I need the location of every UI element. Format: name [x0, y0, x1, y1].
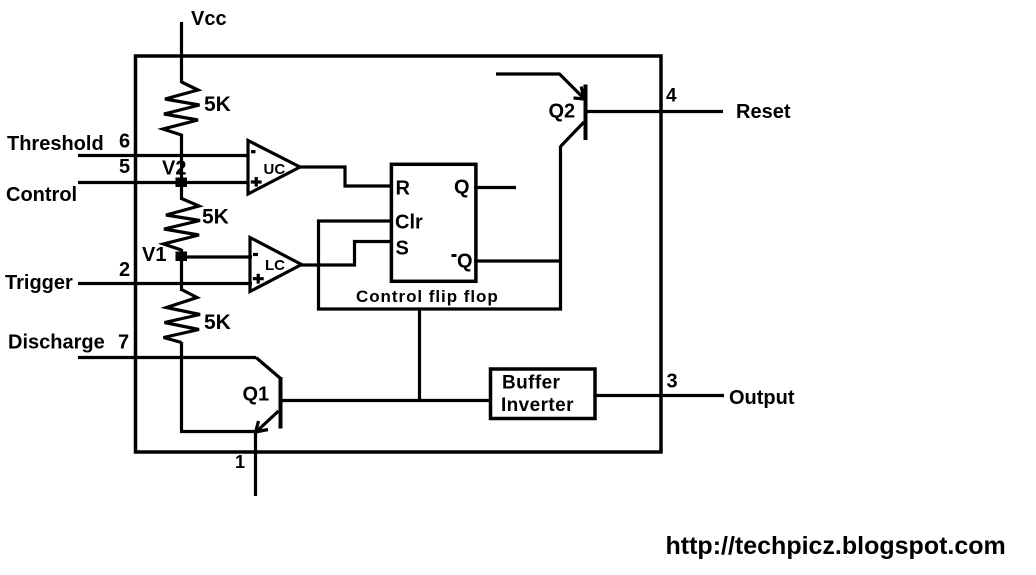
- wire Discharge pin 7 to Q1 collector: [78, 356, 256, 359]
- svg-text:Q1: Q1: [243, 384, 270, 406]
- resistor R3 5K: [164, 290, 201, 343]
- wire UC output to flip flop R input: [300, 167, 393, 186]
- transistor Q2 label: [549, 101, 576, 123]
- node V2 label: [162, 158, 186, 180]
- Vcc label: [191, 8, 227, 30]
- svg-text:Q2: Q2: [549, 101, 576, 123]
- Control label: [6, 184, 77, 206]
- resistor R2 5K: [164, 199, 201, 251]
- watermark URL caption: [666, 532, 1006, 560]
- wire Clr feedback: left, down, along bottom, up to Q2 emitter: [319, 146, 561, 309]
- pin 4 label: [666, 86, 677, 107]
- Buffer Inverter box U2: [491, 369, 596, 419]
- wire R1 bottom to R2 top: [180, 134, 183, 200]
- pin 6 label: [119, 131, 130, 153]
- svg-text:Clr: Clr: [395, 212, 423, 234]
- svg-text:2: 2: [119, 259, 130, 281]
- svg-text:Q: Q: [457, 251, 473, 273]
- svg-text:http://techpicz.blogspot.com: http://techpicz.blogspot.com: [666, 532, 1006, 560]
- svg-text:3: 3: [667, 371, 678, 393]
- Reset label: [736, 101, 791, 123]
- pin Clr label: [395, 212, 423, 234]
- svg-text:Inverter: Inverter: [501, 395, 574, 416]
- pin 3 label: [667, 371, 678, 393]
- Output label: [729, 387, 795, 409]
- svg-text:7: 7: [118, 332, 129, 354]
- Buffer Inverter caption: [501, 373, 574, 417]
- transistor Q2: [496, 74, 586, 147]
- wire -Q output to feedback line: [474, 259, 561, 262]
- Control flip flop caption: [356, 287, 499, 306]
- svg-text:4: 4: [666, 86, 677, 107]
- flip flop box U1: [391, 164, 476, 281]
- resistor R1 5K: [163, 82, 200, 135]
- svg-text:Control: Control: [6, 184, 77, 206]
- svg-text:V1: V1: [142, 244, 166, 266]
- pin R label: [396, 178, 411, 200]
- node V1 junction dot: [176, 252, 188, 262]
- wire junction drop to Q1 base rail: [418, 309, 421, 401]
- wire Q output stub: [474, 186, 516, 189]
- op-amp UC comparator: [248, 141, 300, 195]
- wire R2 bottom to R3 top: [180, 249, 183, 291]
- svg-text:Discharge: Discharge: [8, 332, 105, 354]
- Discharge label: [8, 332, 105, 354]
- Threshold label: [7, 133, 104, 155]
- wire Q1 base rail to Buffer Inverter: [281, 399, 490, 402]
- svg-text:Control flip flop: Control flip flop: [356, 287, 499, 306]
- svg-text:Threshold: Threshold: [7, 133, 104, 155]
- label 5K for R1: [204, 93, 231, 116]
- wire Vcc lead: [180, 22, 183, 83]
- svg-text:5: 5: [119, 156, 130, 178]
- wire Q2 base to Reset pin 4: [588, 110, 724, 113]
- pin -Q label: [452, 251, 473, 273]
- pin 7 label: [118, 332, 129, 354]
- svg-text:6: 6: [119, 131, 130, 153]
- svg-text:Output: Output: [729, 387, 795, 409]
- pin Q label: [454, 177, 470, 199]
- svg-text:UC: UC: [264, 161, 286, 178]
- svg-text:Buffer: Buffer: [502, 373, 561, 394]
- svg-text:LC: LC: [265, 257, 285, 274]
- wire Trigger pin 2: [78, 282, 252, 285]
- pin 1 label: [235, 452, 245, 472]
- svg-text:S: S: [396, 238, 409, 260]
- svg-text:5K: 5K: [204, 311, 231, 334]
- label 5K for R3: [204, 311, 231, 334]
- svg-text:1: 1: [235, 452, 245, 472]
- wire R3 bottom down: [180, 342, 183, 433]
- svg-text:Vcc: Vcc: [191, 8, 227, 30]
- wire Control pin 5: [78, 181, 249, 184]
- pin S label: [396, 238, 409, 260]
- svg-text:Q: Q: [454, 177, 470, 199]
- pin 5 label: [119, 156, 130, 178]
- pin 2 label: [119, 259, 130, 281]
- label 5K for R2: [202, 206, 229, 229]
- wire R3 bottom to Q1 emitter: [180, 430, 256, 433]
- wire LC output to flip flop S input: [301, 242, 392, 266]
- wire Buffer output to Output pin 3: [595, 394, 724, 397]
- svg-text:5K: 5K: [204, 93, 231, 116]
- svg-text:5K: 5K: [202, 206, 229, 229]
- svg-text:V2: V2: [162, 158, 186, 180]
- transistor Q1: [256, 358, 281, 433]
- svg-text:Reset: Reset: [736, 101, 791, 123]
- Trigger label: [5, 272, 73, 294]
- wire ground pin 1 lead: [254, 432, 257, 497]
- wire Threshold pin 6: [78, 154, 249, 157]
- transistor Q1 label: [243, 384, 270, 406]
- op-amp LC comparator: [250, 238, 302, 292]
- IC package boundary box: [136, 56, 662, 452]
- svg-text:R: R: [396, 178, 411, 200]
- node V1 label: [142, 244, 166, 266]
- wire V1 to LC comparator: [182, 255, 253, 258]
- svg-text:Trigger: Trigger: [5, 272, 73, 294]
- node V2 junction dot: [176, 178, 188, 188]
